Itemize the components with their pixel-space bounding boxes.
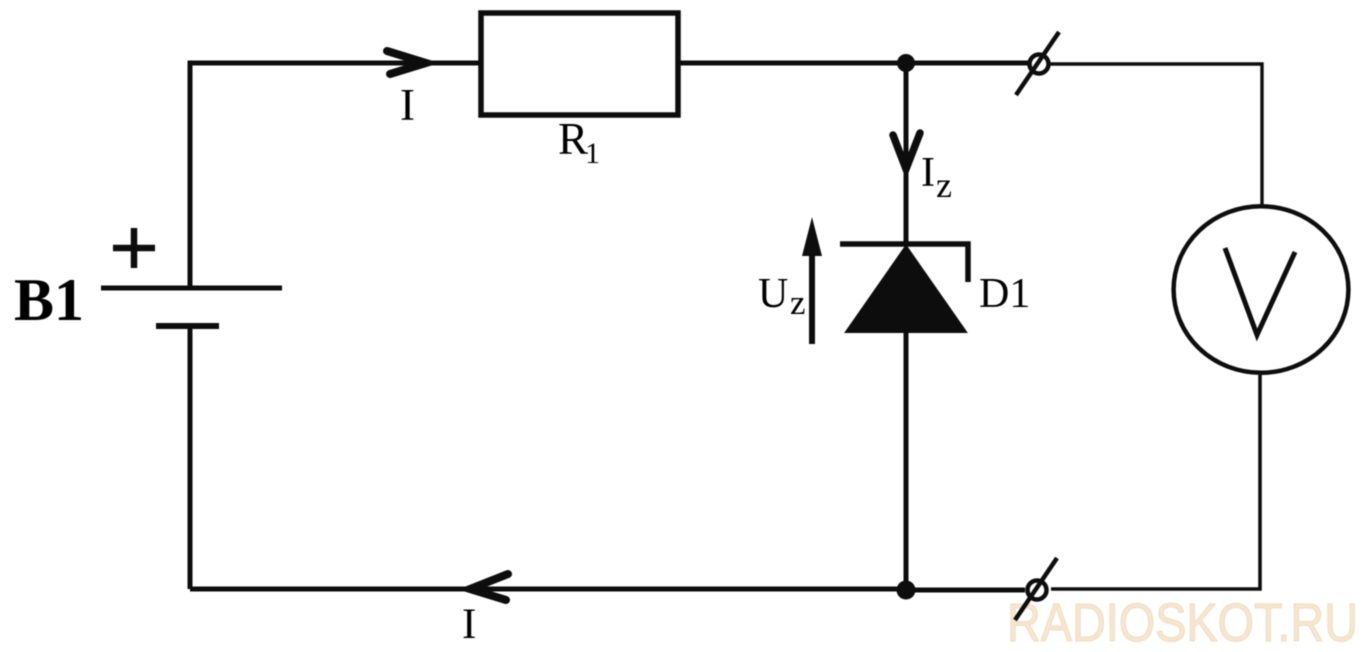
battery B1 negative plate	[156, 323, 219, 329]
current arrow Iz	[893, 133, 920, 169]
resistor R1	[481, 13, 678, 115]
svg-text:I: I	[462, 601, 476, 648]
zener diode D1 anode triangle	[846, 246, 966, 332]
wire bottom: node B to battery	[190, 587, 906, 592]
wire TP1 to voltmeter	[1050, 64, 1262, 205]
voltage arrow Uz head	[802, 217, 822, 256]
svg-text:B1: B1	[14, 267, 84, 333]
svg-text:RADIOSKOT.RU: RADIOSKOT.RU	[1007, 593, 1358, 652]
svg-text:z: z	[936, 165, 952, 205]
battery B1 positive plate	[101, 286, 282, 291]
svg-text:R: R	[558, 114, 588, 164]
test point TP2 slash	[1015, 558, 1057, 620]
svg-text:D1: D1	[979, 271, 1030, 317]
voltage arrow Uz shaft	[809, 242, 815, 344]
wire left: bottom corner up to battery negative	[188, 326, 193, 589]
wire zener anode to node B	[904, 330, 909, 590]
wire TP2 to node B	[906, 588, 1025, 593]
svg-text:1: 1	[585, 137, 600, 170]
current arrow I bottom	[470, 574, 508, 600]
battery plus sign	[113, 228, 155, 268]
test point TP1 circle	[1030, 55, 1049, 74]
voltmeter PV1 circle	[1174, 206, 1349, 373]
current arrow I top	[387, 51, 426, 74]
voltmeter V mark	[1225, 248, 1295, 335]
test point TP1 slash	[1016, 32, 1059, 95]
node B junction dot	[897, 581, 916, 600]
svg-text:U: U	[758, 271, 788, 317]
wire voltmeter down to bottom right corner	[1051, 375, 1260, 589]
zener diode D1 cathode bar with right hook	[840, 244, 968, 282]
test point TP2 circle	[1028, 581, 1047, 600]
svg-text:I: I	[921, 150, 935, 196]
svg-text:z: z	[790, 283, 806, 322]
wire resistor to node A	[680, 61, 1028, 66]
wire node A down to zener cathode	[904, 63, 909, 246]
svg-text:I: I	[400, 80, 415, 130]
node A junction dot	[897, 54, 915, 72]
wire top: battery to resistor	[190, 63, 479, 288]
